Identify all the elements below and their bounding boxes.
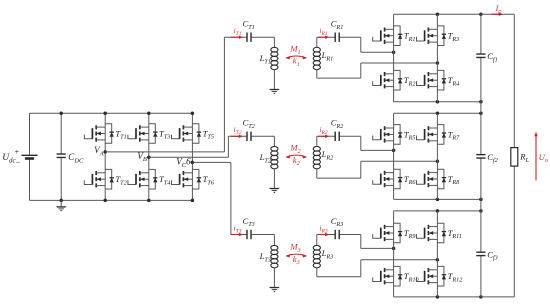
transistor T_T6 bbox=[172, 169, 215, 189]
wire primary row 3 bbox=[231, 235, 275, 246]
wire bridge 2 right leg bbox=[436, 113, 438, 199]
wire DC bus top rail bbox=[30, 112, 193, 114]
capacitor C_R2 bbox=[331, 118, 344, 141]
wire secondary 1 bottom bbox=[317, 61, 439, 78]
wire bridge 3 left leg bbox=[393, 211, 395, 297]
wire secondary 2 bottom bbox=[317, 160, 439, 179]
wire bridge 3 bottom rail bbox=[394, 295, 483, 299]
inductor L_T3 bbox=[259, 245, 278, 286]
inductor L_T2 bbox=[259, 146, 278, 187]
wire phase C bbox=[192, 162, 231, 234]
wire bridge 3 top rail bbox=[394, 209, 483, 213]
capacitor C_T1 bbox=[242, 19, 254, 42]
wire output bottom bbox=[481, 296, 514, 298]
ground (primary 3) bbox=[269, 287, 280, 292]
wire primary row 1 bbox=[224, 37, 274, 47]
current arrow i_T2 bbox=[231, 125, 244, 138]
ground (primary 2) bbox=[269, 188, 280, 193]
resistor R_L bbox=[511, 148, 530, 167]
transistor T_T5 bbox=[172, 124, 214, 144]
wire output top bbox=[481, 13, 514, 15]
wire bridge 1 right leg bbox=[436, 14, 438, 102]
transistor T_T1 bbox=[84, 124, 126, 144]
wire bridge 2 bottom rail bbox=[394, 198, 483, 202]
wire output right rail bbox=[513, 14, 515, 297]
current arrow i_R1 bbox=[318, 26, 330, 39]
transistor T_R10 bbox=[373, 266, 420, 286]
wire bridge 2 left leg bbox=[393, 113, 395, 199]
capacitor C_f3 bbox=[476, 249, 497, 261]
transistor T_R3 bbox=[417, 26, 460, 46]
capacitor C_DC bbox=[57, 112, 84, 203]
inductor L_R2 bbox=[313, 136, 333, 168]
svg-text:+: + bbox=[15, 147, 20, 156]
wire secondary 3 top bbox=[317, 235, 396, 251]
node V_C bbox=[176, 157, 194, 169]
wire secondary 3 bottom bbox=[317, 258, 439, 277]
wire bridge 2 top rail bbox=[394, 112, 483, 116]
wire inverter leg 3 bbox=[191, 112, 195, 203]
ground (DC link) bbox=[56, 200, 67, 211]
capacitor C_f2 bbox=[476, 152, 497, 164]
capacitor C_f1 bbox=[476, 51, 497, 63]
wire DC bus bottom rail bbox=[30, 199, 193, 201]
wire bridge 1 bottom rail bbox=[394, 100, 483, 104]
capacitor C_R1 bbox=[331, 19, 344, 42]
current arrow I_o bbox=[491, 3, 503, 16]
battery U_dc bbox=[2, 113, 37, 200]
wire bridge 3 right leg bbox=[436, 211, 438, 297]
wire filter column bbox=[480, 14, 482, 297]
output voltage U_o bbox=[534, 132, 548, 181]
transistor T_R8 bbox=[417, 169, 461, 189]
transistor T_R11 bbox=[417, 223, 462, 243]
wire secondary 2 top bbox=[317, 136, 396, 152]
ground (primary 1) bbox=[269, 89, 280, 94]
inductor L_T1 bbox=[259, 47, 278, 89]
wire phase A bbox=[105, 37, 224, 152]
current arrow i_R2 bbox=[318, 125, 330, 138]
wire bridge 1 top rail bbox=[394, 12, 483, 16]
transistor T_R1 bbox=[373, 26, 416, 46]
transistor T_R12 bbox=[417, 266, 463, 286]
current arrow i_R3 bbox=[318, 223, 330, 236]
inductor L_R3 bbox=[313, 235, 333, 268]
coupling M_3 k_3 bbox=[286, 242, 307, 266]
current arrow i_T1 bbox=[231, 26, 244, 39]
wire primary row 2 bbox=[228, 136, 274, 146]
transistor T_R9 bbox=[373, 223, 416, 243]
current arrow i_T3 bbox=[231, 223, 244, 236]
transistor T_R5 bbox=[373, 125, 416, 145]
inductor L_R1 bbox=[313, 37, 333, 69]
wire bridge 1 left leg bbox=[393, 14, 395, 102]
transistor T_R7 bbox=[417, 125, 461, 145]
svg-text:−: − bbox=[16, 158, 21, 167]
wire inverter leg 1 bbox=[103, 112, 107, 203]
wire secondary 1 top bbox=[317, 37, 396, 54]
node V_B bbox=[137, 151, 150, 163]
transistor T_T4 bbox=[128, 169, 170, 189]
capacitor C_T2 bbox=[242, 118, 254, 141]
transistor T_T2 bbox=[84, 169, 126, 189]
coupling M_2 k_2 bbox=[286, 143, 307, 167]
transistor T_R6 bbox=[373, 169, 417, 189]
wire inverter leg 2 bbox=[147, 112, 151, 203]
coupling M_1 k_1 bbox=[286, 44, 307, 68]
transistor T_R4 bbox=[417, 70, 460, 90]
wire phase B bbox=[149, 136, 229, 157]
transistor T_T3 bbox=[128, 124, 170, 144]
transistor T_R2 bbox=[373, 70, 416, 90]
node V_A bbox=[94, 145, 107, 157]
capacitor C_T3 bbox=[242, 216, 254, 239]
capacitor C_R3 bbox=[331, 216, 344, 239]
